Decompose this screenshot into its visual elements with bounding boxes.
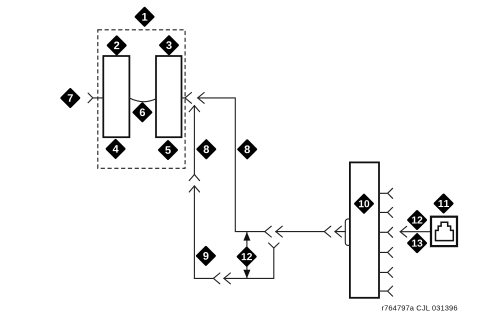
connection arrow pair on horizontal run xyxy=(265,226,272,237)
vertical riser lower (cable 9) with up arrow xyxy=(189,186,199,192)
callout diamond 2 xyxy=(106,35,127,56)
information outlet jack (unit 11) xyxy=(431,217,457,246)
callout diamond 3 xyxy=(159,35,180,56)
connection arrow pair at enclosure edge (node 8) xyxy=(185,93,192,104)
stub wire out of right module xyxy=(181,97,185,99)
panel right-side fork stub 5 xyxy=(379,267,393,277)
wire from node 7 into left module with fork xyxy=(88,93,103,103)
callout diamond 12 jack xyxy=(407,210,428,231)
jumper arc between modules (node 6) xyxy=(129,98,156,102)
module left (unit 2/4) xyxy=(103,56,129,137)
panel right-side fork stub 2 xyxy=(379,207,393,217)
callout diamond 13 xyxy=(407,233,428,254)
wire from jack toward panel (node 12/13) xyxy=(400,231,431,233)
connection arrow pair on bottom run xyxy=(213,273,220,284)
panel right-side fork stub 4 xyxy=(379,247,393,257)
wire into panel connector tab xyxy=(335,231,345,233)
callout diamond 10 xyxy=(354,193,375,214)
dimension arrowhead up xyxy=(243,232,250,241)
wire continues toward panel xyxy=(276,231,325,233)
panel right-side fork stub 3 xyxy=(379,227,393,237)
module right (unit 3/5) xyxy=(156,56,182,137)
dimension arrow line (span 12) xyxy=(246,232,248,278)
wire run right and down (cable 8) xyxy=(198,98,265,232)
panel right-side fork stub 6 xyxy=(379,286,393,296)
bottom run continues and rises with fork (cable 12) xyxy=(224,248,274,278)
callout diamond 5 xyxy=(158,140,179,161)
svg-text:r764797a CJL 031396: r764797a CJL 031396 xyxy=(382,304,458,313)
callout diamond 7 xyxy=(60,88,81,109)
dimension arrowhead down xyxy=(243,270,250,279)
dashed enclosure (unit 1) xyxy=(98,30,185,169)
vertical riser upper (cable 8) with up arrow and bottom fork xyxy=(193,106,195,175)
callout diamond 1 xyxy=(134,6,155,27)
callout diamond 11 xyxy=(433,193,454,214)
callout diamond 4 xyxy=(105,138,126,159)
connector tab on panel left edge xyxy=(345,219,350,246)
wall field / patch panel (unit 10) xyxy=(350,162,379,297)
callout diamond 6 xyxy=(132,102,153,123)
callout diamond 8 left xyxy=(196,139,217,160)
callout diamond 8 right xyxy=(237,139,258,160)
callout diamond 9 xyxy=(195,245,216,266)
connection arrow pair near panel xyxy=(324,226,331,237)
callout diamond 12 span xyxy=(236,246,257,267)
panel right-side fork stub 1 xyxy=(379,188,393,198)
